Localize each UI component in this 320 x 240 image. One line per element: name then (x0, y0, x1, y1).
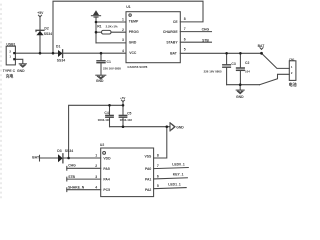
svg-text:BAT: BAT (258, 44, 266, 48)
svg-text:PA1: PA1 (145, 178, 151, 182)
svg-text:GND: GND (96, 79, 104, 83)
svg-text:226 16V 0805: 226 16V 0805 (103, 66, 121, 70)
svg-text:U1: U1 (126, 5, 130, 9)
svg-text:SS34: SS34 (65, 149, 73, 153)
svg-text:0603-102: 0603-102 (120, 118, 133, 122)
svg-text:VSS: VSS (145, 154, 153, 158)
svg-text:GND: GND (176, 126, 184, 130)
svg-text:4: 4 (95, 186, 97, 190)
svg-text:VDD: VDD (103, 157, 111, 161)
svg-text:5: 5 (157, 184, 159, 188)
svg-text:SS34: SS34 (44, 32, 52, 36)
svg-text:PROG: PROG (129, 30, 139, 34)
svg-text:STABY: STABY (166, 40, 178, 44)
svg-text:226 16V 0805: 226 16V 0805 (204, 69, 222, 73)
svg-text:1: 1 (95, 154, 97, 158)
svg-text:LED1_1: LED1_1 (168, 183, 181, 187)
svg-text:+5V: +5V (120, 96, 125, 100)
svg-text:C2: C2 (245, 61, 249, 65)
svg-text:D1: D1 (56, 44, 60, 48)
svg-text:0603-106: 0603-106 (98, 118, 111, 122)
svg-text:CHARGE: CHARGE (163, 30, 178, 34)
svg-text:R1: R1 (97, 25, 101, 29)
svg-text:SHAKE_N: SHAKE_N (68, 186, 85, 190)
svg-text:BAT: BAT (32, 156, 40, 160)
svg-text:104: 104 (245, 70, 250, 74)
svg-text:C3: C3 (231, 62, 235, 66)
svg-text:2: 2 (122, 28, 124, 32)
svg-text:D2: D2 (44, 27, 48, 31)
svg-text:充电: 充电 (6, 73, 14, 78)
svg-text:KEY_1: KEY_1 (173, 173, 184, 177)
svg-text:GND: GND (17, 69, 25, 73)
svg-text:PA0: PA0 (145, 167, 151, 171)
svg-text:PC5: PC5 (103, 188, 110, 192)
svg-text:CE: CE (173, 20, 178, 24)
svg-text:LED0_1: LED0_1 (172, 163, 185, 167)
svg-text:U2: U2 (100, 143, 104, 147)
svg-text:VCC: VCC (129, 51, 137, 55)
svg-text:6: 6 (157, 174, 159, 178)
svg-text:SS34: SS34 (57, 58, 65, 62)
svg-text:7: 7 (184, 27, 186, 31)
svg-text:C4: C4 (104, 111, 108, 115)
svg-text:CHG: CHG (68, 164, 76, 168)
svg-text:GND: GND (129, 41, 137, 45)
svg-text:C1: C1 (107, 60, 111, 64)
svg-text:TEMP: TEMP (129, 20, 139, 24)
svg-text:TYPE C: TYPE C (3, 69, 16, 73)
svg-text:7: 7 (157, 164, 159, 168)
svg-text:5: 5 (184, 48, 186, 52)
svg-text:USB1: USB1 (6, 42, 15, 46)
svg-text:CHG: CHG (202, 28, 210, 32)
svg-text:GS4056 SOP8: GS4056 SOP8 (127, 65, 147, 69)
svg-text:STB: STB (68, 175, 75, 179)
svg-text:PA4: PA4 (103, 178, 109, 182)
svg-text:PA2: PA2 (145, 188, 151, 192)
svg-text:电池: 电池 (289, 81, 297, 87)
svg-text:STB: STB (202, 38, 209, 42)
svg-text:+5V: +5V (37, 11, 44, 15)
svg-text:3: 3 (95, 175, 97, 179)
svg-text:2: 2 (95, 164, 97, 168)
svg-text:PA5: PA5 (103, 167, 109, 171)
svg-text:3: 3 (122, 38, 124, 42)
svg-text:CN1: CN1 (289, 57, 295, 61)
svg-text:C5: C5 (127, 111, 131, 115)
svg-text:8: 8 (184, 17, 186, 21)
svg-text:GND: GND (236, 95, 244, 99)
svg-text:6: 6 (184, 37, 186, 41)
svg-text:4: 4 (122, 49, 124, 53)
svg-text:2.2K+1%: 2.2K+1% (106, 25, 118, 29)
svg-text:BAT: BAT (170, 52, 178, 56)
svg-text:8: 8 (157, 154, 159, 158)
svg-text:D3: D3 (57, 149, 61, 153)
svg-text:1: 1 (122, 18, 124, 22)
